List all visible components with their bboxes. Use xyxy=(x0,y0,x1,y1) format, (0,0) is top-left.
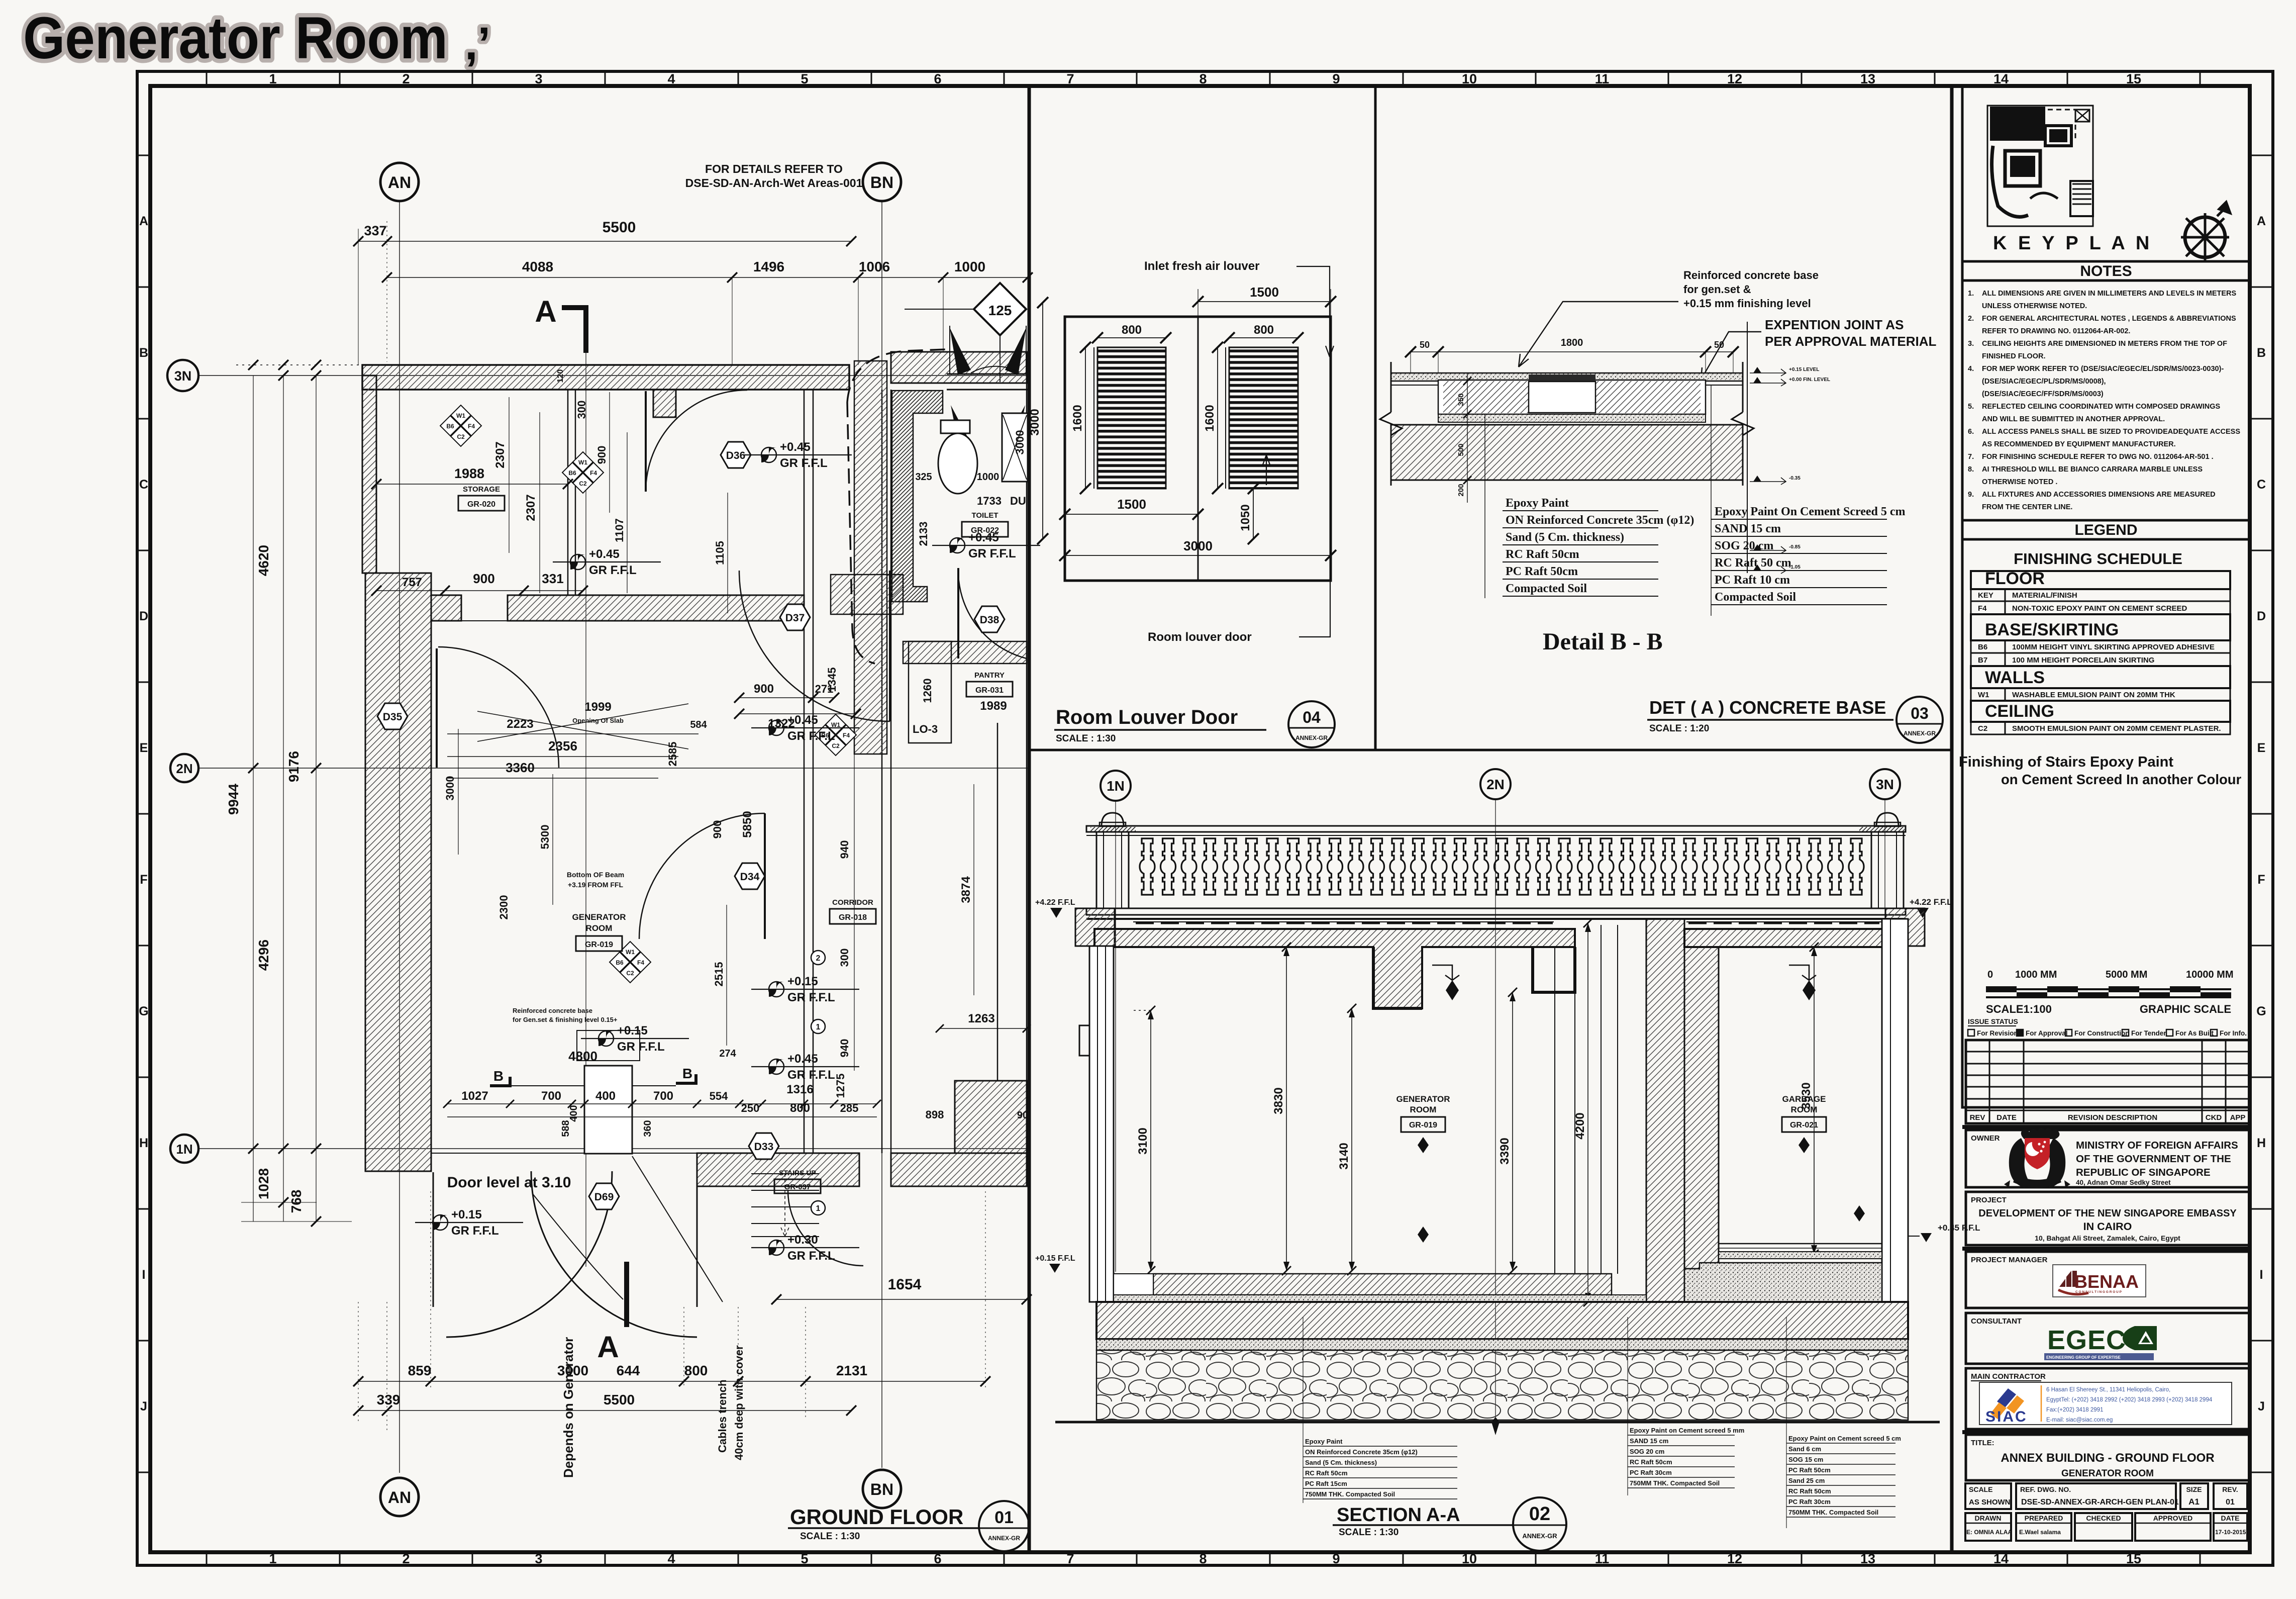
dark door wedges top right xyxy=(950,328,1026,446)
section middle wall xyxy=(1646,919,1684,1302)
svg-text:+0.45: +0.45 xyxy=(589,547,620,561)
svg-text:1500: 1500 xyxy=(1117,497,1146,512)
svg-text:Epoxy Paint: Epoxy Paint xyxy=(1305,1438,1343,1445)
svg-text:GR-018: GR-018 xyxy=(839,913,867,922)
svg-text:900: 900 xyxy=(473,571,494,586)
svg-text:C2: C2 xyxy=(1978,724,1987,733)
svg-text:100MM HEIGHT VINYL SKIRTING AP: 100MM HEIGHT VINYL SKIRTING APPROVED ADH… xyxy=(2012,643,2215,651)
concrete base: right break line xyxy=(1732,362,1754,486)
louver dim 1500 top xyxy=(1192,285,1336,317)
svg-text:5: 5 xyxy=(801,1551,808,1566)
detail 03 title xyxy=(1647,697,1943,743)
storage room label xyxy=(458,485,505,511)
svg-text:J: J xyxy=(140,1399,147,1414)
plan right-mid hatched block xyxy=(955,1081,1027,1153)
svg-text:1260: 1260 xyxy=(921,679,934,703)
svg-text:1027: 1027 xyxy=(461,1089,488,1103)
double door D69 arcs xyxy=(433,1171,697,1337)
svg-text:01: 01 xyxy=(2226,1498,2235,1507)
generator room inner outline xyxy=(431,621,804,1153)
door tag D34 xyxy=(735,863,765,889)
finishing schedule table xyxy=(1971,571,2230,589)
svg-text:,’: ,’ xyxy=(465,18,490,69)
svg-text:03: 03 xyxy=(1911,704,1929,722)
svg-text:-0.35: -0.35 xyxy=(1789,476,1801,481)
svg-text:IN CAIRO: IN CAIRO xyxy=(2083,1220,2132,1233)
svg-text:B6: B6 xyxy=(616,959,624,966)
svg-text:5850: 5850 xyxy=(741,811,754,837)
grid AN top xyxy=(380,163,419,1473)
svg-text:F4: F4 xyxy=(590,469,597,477)
svg-text:14: 14 xyxy=(1993,1551,2009,1566)
svg-text:AI THRESHOLD WILL BE BIANCO CA: AI THRESHOLD WILL BE BIANCO CARRARA MARB… xyxy=(1982,465,2203,474)
LO-3 label xyxy=(909,641,951,743)
svg-text:MAIN CONTRACTOR: MAIN CONTRACTOR xyxy=(1971,1372,2046,1381)
floor build-up stack 1 xyxy=(1303,1317,1457,1503)
svg-text:CEILING: CEILING xyxy=(1985,702,2054,721)
diamond 125 tag xyxy=(905,283,1026,382)
svg-text:C2: C2 xyxy=(626,970,634,977)
consultant block xyxy=(1966,1313,2250,1364)
svg-text:AND WILL BE SUBMITTED IN ANOTH: AND WILL BE SUBMITTED IN ANOTHER APPROVA… xyxy=(1982,415,2165,423)
dashed boundary top right xyxy=(847,349,947,402)
svg-text:A1: A1 xyxy=(2188,1497,2200,1507)
svg-text:F4: F4 xyxy=(637,959,644,966)
concrete base: expansion joint label xyxy=(1701,317,1937,380)
svg-text:2.: 2. xyxy=(1968,315,1974,323)
svg-text:3N: 3N xyxy=(174,368,192,384)
rotated dims left block xyxy=(493,369,728,613)
toilet room label xyxy=(962,511,1008,537)
dim row 339/5500 (bottom) xyxy=(353,1191,985,1433)
floor diamond left room xyxy=(1418,1227,1429,1243)
svg-text:898: 898 xyxy=(926,1108,944,1121)
section right outer wall xyxy=(1882,919,1908,1302)
plan stairs bottom wall xyxy=(697,1153,859,1186)
section dim 3140 xyxy=(1337,1004,1356,1275)
svg-text:11: 11 xyxy=(1595,1551,1610,1566)
svg-text:B6: B6 xyxy=(446,423,454,430)
section dim 3530 xyxy=(1800,943,1819,1259)
louver dim 3000 left xyxy=(1028,297,1048,544)
svg-text:FINISHED FLOOR.: FINISHED FLOOR. xyxy=(1982,352,2045,360)
svg-text:339: 339 xyxy=(377,1392,401,1407)
svg-text:(DSE/SIAC/EGEC/PL/SDR/MS/0008): (DSE/SIAC/EGEC/PL/SDR/MS/0008), xyxy=(1982,378,2106,386)
svg-text:GR-019: GR-019 xyxy=(585,940,613,949)
svg-text:940: 940 xyxy=(838,1039,851,1058)
svg-text:Bottom OF Beam: Bottom OF Beam xyxy=(567,871,624,879)
section marker A bottom xyxy=(597,1262,627,1364)
svg-text:Sand (5 Cm. thickness): Sand (5 Cm. thickness) xyxy=(1305,1459,1377,1466)
door tag D36 xyxy=(721,442,751,468)
svg-text:B: B xyxy=(139,346,148,360)
svg-text:1800: 1800 xyxy=(1561,337,1583,348)
dim 1988 xyxy=(371,466,573,489)
svg-text:ALL DIMENSIONS ARE GIVEN IN MI: ALL DIMENSIONS ARE GIVEN IN MILLIMETERS … xyxy=(1982,290,2237,298)
keyplan north compass xyxy=(2181,202,2230,261)
cables trench note xyxy=(632,1156,745,1460)
floor diamond right room xyxy=(1854,1205,1865,1221)
svg-text:RC Raft 50cm: RC Raft 50cm xyxy=(1788,1487,1831,1495)
svg-text:G: G xyxy=(2256,1004,2266,1018)
svg-text:For Approval: For Approval xyxy=(2026,1029,2068,1037)
svg-text:FLOOR: FLOOR xyxy=(1985,569,2045,588)
svg-text:4: 4 xyxy=(667,1551,675,1566)
svg-text:AS SHOWN: AS SHOWN xyxy=(1969,1498,2011,1507)
ceiling symbol left room xyxy=(1432,965,1459,1000)
svg-text:Generator Room: Generator Room xyxy=(23,5,448,71)
level marker +0.45 toilet xyxy=(932,531,1040,560)
svg-text:1050: 1050 xyxy=(1239,504,1252,531)
svg-text:STORAGE: STORAGE xyxy=(463,485,500,494)
louver dim 800 right xyxy=(1224,323,1304,343)
svg-text:For Construction: For Construction xyxy=(2074,1029,2130,1037)
section dim 3830 xyxy=(1272,943,1291,1275)
svg-text:AS RECOMMENDED BY EQUIPMENT MA: AS RECOMMENDED BY EQUIPMENT MANUFACTURER… xyxy=(1982,440,2176,448)
svg-text:400: 400 xyxy=(568,1105,579,1121)
level marker +0.45 lobby xyxy=(744,440,852,470)
svg-text:14: 14 xyxy=(1993,71,2009,86)
louver dim 3000 bottom xyxy=(1059,538,1336,561)
svg-text:800: 800 xyxy=(684,1363,708,1378)
concrete base: left material stack xyxy=(1485,414,1694,598)
svg-text:4200: 4200 xyxy=(1573,1112,1587,1139)
svg-text:10, Bahgat Ali Street, Zamalek: 10, Bahgat Ali Street, Zamalek, Cairo, E… xyxy=(2035,1234,2180,1242)
beam note xyxy=(567,871,624,889)
svg-text:1.: 1. xyxy=(1968,290,1974,298)
svg-text:3390: 3390 xyxy=(1498,1138,1512,1164)
svg-text:4296: 4296 xyxy=(256,939,271,971)
generator room dims xyxy=(444,700,737,1064)
svg-text:on Cement Screed In another Co: on Cement Screed In another Colour xyxy=(2001,772,2242,787)
finish tag cluster lobby xyxy=(562,452,604,493)
svg-text:4800: 4800 xyxy=(568,1049,597,1064)
svg-text:H: H xyxy=(2257,1136,2266,1150)
svg-text:J: J xyxy=(2258,1399,2265,1414)
svg-text:F4: F4 xyxy=(1978,604,1987,613)
svg-text:300: 300 xyxy=(575,401,588,419)
svg-text:SCALE : 1:30: SCALE : 1:30 xyxy=(800,1531,860,1542)
svg-text:Fax:(+202) 3418 2991: Fax:(+202) 3418 2991 xyxy=(2046,1407,2103,1413)
svg-text:6: 6 xyxy=(934,1551,941,1566)
garbage room label (section) xyxy=(1782,1094,1826,1153)
svg-text:+0.45: +0.45 xyxy=(787,1052,818,1066)
svg-text:5500: 5500 xyxy=(604,1392,635,1407)
svg-text:B7: B7 xyxy=(1978,656,1987,665)
svg-text:+0.45: +0.45 xyxy=(968,531,999,544)
svg-text:TITLE:: TITLE: xyxy=(1971,1439,1994,1447)
svg-text:EGEC: EGEC xyxy=(2047,1325,2126,1355)
door D38 leaf and arc xyxy=(958,568,1027,659)
svg-text:2585: 2585 xyxy=(666,742,679,767)
svg-text:2N: 2N xyxy=(1486,777,1505,792)
svg-text:2307: 2307 xyxy=(493,441,507,468)
right side dims xyxy=(926,784,1031,1121)
svg-text:4: 4 xyxy=(667,71,675,86)
svg-text:D36: D36 xyxy=(726,450,746,461)
owner block xyxy=(1966,1130,2250,1187)
svg-text:B: B xyxy=(2257,346,2266,360)
svg-text:Sand (5 Cm. thickness): Sand (5 Cm. thickness) xyxy=(1506,531,1624,544)
svg-text:B: B xyxy=(493,1068,504,1084)
svg-text:2223: 2223 xyxy=(507,717,533,731)
concrete base: raft slab hatch xyxy=(1391,425,1743,480)
svg-text:12: 12 xyxy=(1727,71,1742,86)
svg-text:325: 325 xyxy=(915,472,932,483)
svg-text:1: 1 xyxy=(269,1551,276,1566)
svg-text:2515: 2515 xyxy=(713,962,725,987)
level label +4.22 FFL left xyxy=(1035,898,1075,918)
keyplan box xyxy=(1962,86,2250,261)
svg-text:900: 900 xyxy=(711,820,724,839)
svg-text:+0.45 F.F.L: +0.45 F.F.L xyxy=(1938,1223,1980,1233)
svg-text:WALLS: WALLS xyxy=(1985,668,2045,687)
svg-text:REF. DWG. NO.: REF. DWG. NO. xyxy=(2020,1485,2071,1493)
svg-text:1654: 1654 xyxy=(888,1276,922,1293)
svg-text:Epoxy Paint On Cement Screed: Epoxy Paint On Cement Screed 5 cm xyxy=(1715,505,1906,518)
svg-text:ALL FIXTURES AND ACCESSORIES D: ALL FIXTURES AND ACCESSORIES DIMENSIONS … xyxy=(1982,491,2216,499)
svg-text:CEILING HEIGHTS ARE DIMENSIONE: CEILING HEIGHTS ARE DIMENSIONED IN METER… xyxy=(1982,340,2227,348)
svg-text:300: 300 xyxy=(838,949,851,967)
svg-text:GR-020: GR-020 xyxy=(467,500,495,509)
toilet fixtures xyxy=(938,413,1028,494)
section dim 4200 xyxy=(1573,918,1592,1306)
legend header xyxy=(1962,520,2250,539)
grid AN bottom xyxy=(380,1478,419,1516)
plan curved buffer wall (light hatch) xyxy=(854,361,887,754)
finish tag cluster generator xyxy=(610,942,651,983)
svg-text:Epoxy Paint on Cement screed: Epoxy Paint on Cement screed 5 mm xyxy=(1630,1427,1744,1434)
dashed tick row at wall top xyxy=(236,360,606,370)
svg-text:BN: BN xyxy=(870,173,893,192)
svg-text:GR-021: GR-021 xyxy=(1790,1121,1818,1130)
svg-text:+3.19 FROM FFL: +3.19 FROM FFL xyxy=(568,881,624,889)
svg-text:5300: 5300 xyxy=(539,825,551,850)
balustrade right post xyxy=(1871,813,1904,908)
svg-text:G: G xyxy=(139,1004,148,1018)
svg-text:940: 940 xyxy=(838,840,851,859)
section wall faces middle xyxy=(1555,925,1618,1274)
svg-text:17-10-2015: 17-10-2015 xyxy=(2215,1529,2246,1536)
svg-text:RC Raft 50cm: RC Raft 50cm xyxy=(1630,1458,1672,1466)
svg-text:274: 274 xyxy=(719,1048,736,1059)
concrete base: right material stack xyxy=(1711,385,1906,616)
svg-text:9176: 9176 xyxy=(286,751,302,782)
svg-text:OTHERWISE NOTED .: OTHERWISE NOTED . xyxy=(1982,478,2057,486)
plan left wall wide xyxy=(365,573,431,1171)
svg-text:FOR FINISHING SCHEDULE REFER T: FOR FINISHING SCHEDULE REFER TO DWG NO. … xyxy=(1982,453,2214,461)
door D33 leaf and arc xyxy=(788,1190,863,1266)
svg-text:For Tender: For Tender xyxy=(2131,1029,2166,1037)
svg-text:+0.15: +0.15 xyxy=(787,975,818,988)
svg-text:ALL ACCESS PANELS SHALL BE SIZ: ALL ACCESS PANELS SHALL BE SIZED TO PROV… xyxy=(1982,428,2240,436)
svg-text:A: A xyxy=(139,214,148,228)
svg-text:2: 2 xyxy=(816,954,821,963)
svg-text:+0.15: +0.15 xyxy=(451,1208,482,1221)
svg-text:90: 90 xyxy=(1017,1110,1028,1121)
svg-text:A: A xyxy=(597,1330,619,1364)
svg-text:800: 800 xyxy=(1122,323,1142,337)
svg-text:PC Raft 15cm: PC Raft 15cm xyxy=(1305,1480,1347,1487)
dim 900/271 and 1322 xyxy=(734,682,861,730)
door tag D37 xyxy=(780,604,810,630)
svg-text:10000 MM: 10000 MM xyxy=(2186,969,2234,980)
svg-text:SCALE : 1:20: SCALE : 1:20 xyxy=(1649,723,1709,734)
section grid circle 2N xyxy=(1480,769,1511,1423)
svg-text:SIZE: SIZE xyxy=(2186,1485,2202,1493)
svg-text:0: 0 xyxy=(1987,969,1993,980)
finish tag cluster corridor xyxy=(815,714,856,756)
svg-text:RC Raft 50cm: RC Raft 50cm xyxy=(1506,548,1579,561)
svg-text:9.: 9. xyxy=(1968,491,1974,499)
grid 1N xyxy=(170,1135,1028,1163)
svg-text:2307: 2307 xyxy=(524,494,538,521)
section grid circle 1N xyxy=(1101,771,1131,1272)
level marker +0.15 corridor xyxy=(751,975,859,1004)
svg-text:PC Raft 10 cm: PC Raft 10 cm xyxy=(1715,574,1790,587)
svg-text:337: 337 xyxy=(364,223,386,238)
svg-text:800: 800 xyxy=(1254,323,1274,337)
svg-text:3100: 3100 xyxy=(1136,1127,1150,1154)
concrete base: floor finish layers xyxy=(1391,373,1743,385)
svg-text:D: D xyxy=(139,609,148,623)
main contractor block xyxy=(1966,1368,2250,1429)
grid row ticks and letters (left and right bands) xyxy=(137,155,2273,1472)
svg-text:900: 900 xyxy=(754,682,774,696)
louver dim 1600 left xyxy=(1071,342,1091,494)
dim row 4088 / 1496 / 1006 / 1000 (top) xyxy=(382,259,1033,365)
floor build-up stack 3 xyxy=(1786,1317,1901,1528)
svg-text:11: 11 xyxy=(1595,71,1610,86)
svg-text:E-mail: siac@siac.com.eg: E-mail: siac@siac.com.eg xyxy=(2046,1417,2113,1423)
svg-text:D38: D38 xyxy=(980,614,1000,626)
balustrade base rails xyxy=(1086,908,1906,919)
divider between louver detail and concrete detail xyxy=(1374,86,1377,750)
svg-text:APP: APP xyxy=(2230,1113,2246,1122)
right louver panel xyxy=(1229,347,1298,489)
svg-text:+0.45: +0.45 xyxy=(780,440,811,454)
svg-text:E: E xyxy=(2257,741,2266,755)
svg-text:6.: 6. xyxy=(1968,428,1974,436)
stairs treads xyxy=(751,1174,819,1237)
svg-text:3830: 3830 xyxy=(1272,1087,1285,1114)
svg-text:1600: 1600 xyxy=(1203,405,1217,431)
door D35 leaf and arc xyxy=(437,647,559,768)
svg-text:ANNEX-GR: ANNEX-GR xyxy=(1522,1532,1557,1540)
svg-text:I: I xyxy=(2260,1268,2263,1282)
concrete base: left vertical dim chain xyxy=(1457,373,1471,503)
svg-text:UNLESS OTHERWISE NOTED.: UNLESS OTHERWISE NOTED. xyxy=(1982,302,2087,310)
svg-text:Door level at 3.10: Door level at 3.10 xyxy=(447,1174,571,1191)
level marker +0.45 corridor low xyxy=(751,1052,859,1082)
svg-text:1000 MM: 1000 MM xyxy=(2015,969,2057,980)
svg-text:DET ( A ) CONCRETE BASE: DET ( A ) CONCRETE BASE xyxy=(1649,697,1886,718)
svg-text:A: A xyxy=(2257,214,2266,228)
svg-text:OF THE GOVERNMENT OF THE: OF THE GOVERNMENT OF THE xyxy=(2076,1153,2231,1165)
svg-text:1345: 1345 xyxy=(826,668,838,692)
svg-text:SECTION A-A: SECTION A-A xyxy=(1337,1504,1460,1526)
notes body xyxy=(1962,280,2250,520)
svg-text:40, Adnan Omar Sedky Street: 40, Adnan Omar Sedky Street xyxy=(2076,1179,2171,1186)
svg-text:2: 2 xyxy=(402,1551,410,1566)
plan toilet west wall (dense hatch) xyxy=(892,391,943,602)
singapore coat of arms logo xyxy=(2004,1128,2070,1188)
plan top-right hatched zone xyxy=(891,352,1027,383)
svg-text:768: 768 xyxy=(288,1190,304,1213)
svg-text:Reinforced concrete base: Reinforced concrete base xyxy=(1683,269,1819,281)
svg-text:1: 1 xyxy=(269,71,276,86)
concrete base: right reference line with level flags xyxy=(1747,322,1830,574)
svg-text:Room louver door: Room louver door xyxy=(1148,630,1252,644)
svg-text:C O N S U L T I N G G R O U: C O N S U L T I N G G R O U P xyxy=(2075,1290,2122,1294)
svg-text:FROM THE CENTER LINE.: FROM THE CENTER LINE. xyxy=(1982,503,2072,511)
svg-text:F4: F4 xyxy=(843,732,850,739)
svg-text:DSE-SD-AN-Arch-Wet Areas-001: DSE-SD-AN-Arch-Wet Areas-001 xyxy=(685,176,863,190)
svg-text:FOR GENERAL ARCHITECTURAL NOTE: FOR GENERAL ARCHITECTURAL NOTES , LEGEND… xyxy=(1982,315,2236,323)
pantry room label xyxy=(966,671,1013,697)
svg-text:859: 859 xyxy=(408,1363,432,1378)
door tag D35 xyxy=(377,703,408,729)
svg-text:REFLECTED CEILING COORDINATED: REFLECTED CEILING COORDINATED WITH COMPO… xyxy=(1982,403,2221,411)
svg-text:Epoxy Paint: Epoxy Paint xyxy=(1506,497,1569,510)
svg-text:4620: 4620 xyxy=(256,545,271,576)
svg-text:Sand 6 cm: Sand 6 cm xyxy=(1788,1445,1821,1453)
plan corridor left wall xyxy=(804,390,813,1153)
section dim 3100 xyxy=(1131,1006,1155,1275)
svg-text:125: 125 xyxy=(988,303,1012,318)
svg-text:+0.15 mm finishing level: +0.15 mm finishing level xyxy=(1683,297,1811,310)
svg-text:D: D xyxy=(2257,609,2266,623)
svg-text:1275: 1275 xyxy=(834,1074,847,1098)
svg-text:1N: 1N xyxy=(176,1142,192,1157)
svg-text:3000: 3000 xyxy=(1028,409,1042,435)
svg-text:10: 10 xyxy=(1462,1551,1477,1566)
svg-text:REVISION DESCRIPTION: REVISION DESCRIPTION xyxy=(2068,1113,2157,1122)
svg-text:3874: 3874 xyxy=(959,876,973,903)
svg-text:W1: W1 xyxy=(626,949,635,956)
door tag D33 xyxy=(749,1133,779,1159)
level marker +0.15 outside xyxy=(415,1208,523,1238)
svg-text:A: A xyxy=(535,295,556,328)
svg-text:6: 6 xyxy=(934,71,941,86)
svg-text:1: 1 xyxy=(816,1204,821,1213)
svg-text:Compacted Soil: Compacted Soil xyxy=(1506,582,1587,595)
corridor rotated dims xyxy=(711,668,854,1098)
rubble stones layer xyxy=(1096,1350,1908,1420)
plan bottom-right wall xyxy=(891,1153,1027,1186)
svg-text:7: 7 xyxy=(1066,1551,1074,1566)
svg-text:3: 3 xyxy=(535,1551,542,1566)
svg-text:ROOM: ROOM xyxy=(1791,1105,1818,1114)
svg-text:SCALE: SCALE xyxy=(1969,1485,1992,1493)
notes header xyxy=(1962,261,2250,280)
svg-text:PREPARED: PREPARED xyxy=(2025,1514,2063,1522)
svg-text:ISSUE STATUS: ISSUE STATUS xyxy=(1968,1017,2018,1025)
svg-text:1000: 1000 xyxy=(977,472,1000,483)
svg-text:SOG 20 cm: SOG 20 cm xyxy=(1630,1448,1664,1455)
grid BN top xyxy=(863,163,901,1468)
svg-text:5.: 5. xyxy=(1968,403,1974,411)
stairs room label xyxy=(774,1169,821,1193)
svg-text:3.: 3. xyxy=(1968,340,1974,348)
svg-text:PER APPROVAL MATERIAL: PER APPROVAL MATERIAL xyxy=(1765,334,1937,349)
svg-text:1105: 1105 xyxy=(714,541,726,565)
left louver panel xyxy=(1097,347,1166,489)
svg-text:E.Wael salama: E.Wael salama xyxy=(2019,1529,2061,1536)
section A-A title xyxy=(1333,1497,1566,1551)
base line xyxy=(1055,1417,1940,1435)
svg-text:C: C xyxy=(2257,478,2266,492)
